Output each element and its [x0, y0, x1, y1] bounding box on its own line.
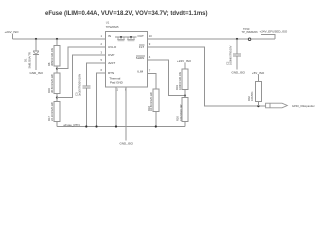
resistor R42 (FLT pull-up): [247, 81, 262, 106]
resistor R18 (ILIM): [147, 89, 159, 127]
node +24V_EFUSED_ISO: [260, 30, 288, 40]
svg-text:10: 10: [149, 34, 152, 38]
svg-text:22.1K/1%/0.1W: 22.1K/1%/0.1W: [50, 102, 54, 121]
op-amp U1 TPS26625 eFuse IC: [101, 20, 153, 91]
svg-text:FLT: FLT: [139, 45, 144, 49]
svg-text:365K/1%/0.1W: 365K/1%/0.1W: [50, 48, 54, 66]
svg-text:Pad GND: Pad GND: [110, 80, 124, 84]
svg-text:TP_IMM6206: TP_IMM6206: [242, 30, 259, 34]
junction R18/rail: [155, 125, 157, 127]
svg-text:100K/1%/0.1W: 100K/1%/0.1W: [178, 72, 182, 90]
svg-text:SHDN: SHDN: [136, 56, 145, 60]
svg-text:16.5K/1%/0.1W: 16.5K/1%/0.1W: [149, 92, 153, 111]
resistor R6: [47, 39, 60, 69]
resistor R20 (SHDN pull-down): [176, 96, 188, 127]
test point TP40: [242, 27, 259, 41]
junction RTN/rail: [95, 125, 97, 127]
node B junction R16/R17: [56, 97, 58, 99]
svg-text:100N/X7R/100V: 100N/X7R/100V: [229, 45, 233, 65]
svg-text:+24V_ISO: +24V_ISO: [5, 30, 20, 34]
svg-text:GND_ISO: GND_ISO: [120, 142, 134, 146]
svg-text:IN: IN: [108, 34, 111, 38]
junction FLT pullup: [257, 105, 259, 107]
svg-text:eFuse_RTN: eFuse_RTN: [64, 123, 80, 127]
wire RTN: [97, 73, 106, 127]
svg-text:10K/5%: 10K/5%: [250, 91, 254, 101]
svg-text:+5V_ISO: +5V_ISO: [252, 71, 265, 75]
wire OVP: [57, 55, 106, 98]
svg-text:eFuse (ILIM=0.44A, VUV=18.2V,: eFuse (ILIM=0.44A, VUV=18.2V, VOV=34.7V;…: [45, 11, 208, 17]
wire SHDN: [148, 60, 186, 96]
wire FLT: [148, 47, 266, 106]
junction PAD/rail: [115, 125, 117, 127]
resistor R17: [47, 98, 60, 127]
transistor QA (internal): [117, 37, 125, 41]
svg-text:OUT: OUT: [138, 34, 145, 38]
junction C2 tap: [236, 38, 238, 40]
wire OUT rail: [148, 38, 249, 40]
junction D1 tap: [35, 38, 37, 40]
internal FET bus: [115, 36, 137, 38]
svg-text:3n3/X7R/50V/10%: 3n3/X7R/50V/10%: [78, 73, 82, 96]
resistor R16: [47, 69, 60, 98]
wire GND pin 8: [125, 87, 127, 141]
svg-text:TPS26625: TPS26625: [106, 25, 119, 29]
capacitor C2 (output): [226, 39, 241, 70]
junction R6 tap: [56, 38, 58, 40]
svg-text:RTN: RTN: [108, 71, 114, 75]
offpage connector GP40_IOExpander: [266, 103, 315, 108]
svg-text:dVdT: dVdT: [108, 61, 115, 65]
svg-text:U1: U1: [106, 20, 110, 24]
wire UVLO: [57, 47, 106, 69]
resistor R19 (SHDN pull-up): [175, 69, 188, 96]
node +24V_ISO (SHDN pullup): [177, 59, 192, 69]
wire ILIM: [148, 73, 156, 89]
node +24V_ISO (input): [5, 30, 20, 39]
wire RTN bottom rail (eFuse_RTN): [57, 126, 185, 128]
svg-text:ILIM: ILIM: [137, 69, 143, 73]
wire OUT to label: [251, 38, 275, 40]
svg-text:GND_ISO: GND_ISO: [232, 71, 246, 75]
wire dVdT: [86, 63, 105, 86]
transistor QB (internal): [127, 37, 135, 41]
svg-text:GP40_IOExpander: GP40_IOExpander: [292, 104, 315, 108]
junction C3/rail: [85, 125, 87, 127]
diode D1 SMBJ30A/TR (TVS): [24, 39, 40, 70]
svg-text:OVP: OVP: [108, 53, 114, 57]
wire PAD to rtn rail: [115, 87, 117, 127]
node A junction R6/R16: [56, 68, 58, 70]
svg-text:GND_ISO: GND_ISO: [30, 71, 44, 75]
svg-text:+24V_ISO: +24V_ISO: [177, 59, 192, 63]
svg-text:36.5K/1%/0.1W: 36.5K/1%/0.1W: [50, 74, 54, 93]
capacitor C3 (dVdT): [74, 73, 90, 126]
svg-text:SMBJ30A/TR: SMBJ30A/TR: [28, 52, 32, 68]
svg-text:+24V_EFUSED_ISO: +24V_EFUSED_ISO: [260, 30, 288, 34]
svg-text:10K/1%/0.1W: 10K/1%/0.1W: [179, 104, 183, 121]
wire input rail: [12, 38, 105, 40]
svg-text:UVLO: UVLO: [108, 45, 117, 49]
svg-text:D1: D1: [24, 58, 28, 62]
node SHDN divider junction: [184, 94, 186, 96]
node +5V_ISO: [252, 71, 265, 82]
